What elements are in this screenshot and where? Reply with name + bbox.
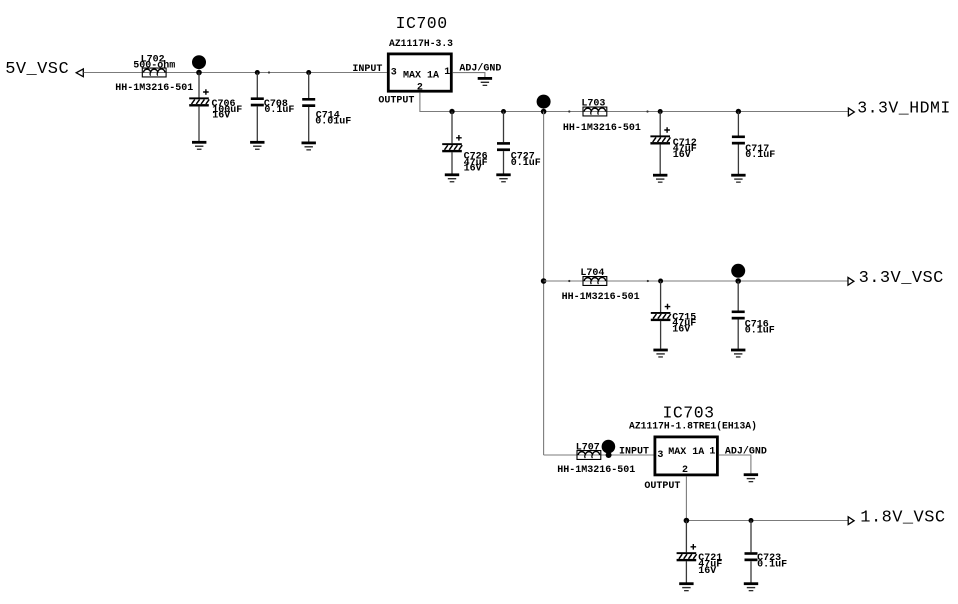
svg-text:16V: 16V [673,150,691,161]
wire trunk vertical [543,112,545,456]
svg-text:1: 1 [709,447,715,458]
svg-text:3: 3 [391,67,397,78]
arrow 1.8V_VSC (right) [848,517,854,525]
capacitor C726 [442,112,487,175]
capacitor C706 [189,73,242,142]
svg-text:0.1uF: 0.1uF [745,326,775,337]
solder dot after L707 [602,440,616,454]
svg-text:0.1uF: 0.1uF [511,158,541,169]
svg-text:AZ1117H-1.8TRE1(EH13A): AZ1117H-1.8TRE1(EH13A) [629,420,757,431]
capacitor C715 [651,281,696,349]
ground C727 [496,173,510,182]
svg-text:0.1uF: 0.1uF [745,150,775,161]
junction node C712 tap [658,109,663,114]
svg-text:INPUT: INPUT [352,64,382,75]
svg-text:16V: 16V [698,566,716,577]
wire nub row2a [568,110,570,112]
ground C706 [192,141,206,150]
ground C712 [653,174,667,183]
arrow 5V_VSC (left) [76,69,83,77]
svg-text:L703: L703 [581,98,605,109]
wire nub row2 [646,110,648,112]
junction node trunk row3 [541,278,547,284]
ground IC703 adj [744,473,758,482]
capacitor C721 [677,521,723,583]
inductor L707 [557,443,635,477]
svg-text:500-ohm: 500-ohm [133,60,175,72]
inductor L704 [562,268,640,303]
capacitor C714 [302,73,351,142]
svg-text:0.1uF: 0.1uF [264,105,294,116]
inductor L703 [563,98,641,134]
capacitor C717 [732,112,775,175]
svg-text:ADJ/GND: ADJ/GND [725,446,767,458]
junction node C727 tap [501,109,506,114]
junction node after L707 [606,452,612,458]
junction node C723 tap [749,518,754,523]
inductor L702 [115,55,193,94]
ground C726 [445,173,459,182]
svg-text:HH-1M3216-501: HH-1M3216-501 [115,83,193,94]
svg-text:IC700: IC700 [396,14,448,33]
junction node C715 tap [658,279,663,284]
op-amp regulator IC703 [629,403,757,476]
svg-text:5V_VSC: 5V_VSC [5,60,69,79]
capacitor C708 [251,73,295,142]
wire row4 input [544,454,654,456]
wire nub row3a [568,280,570,282]
junction node C716 tap [735,278,741,284]
solder dot at input junction [192,55,206,69]
op-amp regulator IC700 [388,14,453,94]
wire row3 rail [544,280,848,282]
wire IC703 output [686,476,848,520]
wire IC700 output [420,93,544,112]
wire ADJ/GND IC700 [453,73,485,78]
svg-text:AZ1117H-3.3: AZ1117H-3.3 [389,38,453,49]
junction node C708 tap [255,70,260,75]
svg-text:3.3V_HDMI: 3.3V_HDMI [857,98,951,117]
junction node C714 tap [306,70,311,75]
svg-text:0.1uF: 0.1uF [757,560,787,571]
svg-text:OUTPUT: OUTPUT [644,481,680,492]
svg-text:OUTPUT: OUTPUT [378,96,414,107]
svg-text:0.01uF: 0.01uF [315,117,351,128]
svg-text:HH-1M3216-501: HH-1M3216-501 [562,292,640,303]
svg-text:16V: 16V [672,325,690,336]
wire ADJ/GND IC703 [719,455,751,473]
svg-text:HH-1M3216-501: HH-1M3216-501 [563,123,641,134]
ground C721 [679,582,693,591]
capacitor C716 [732,281,775,349]
capacitor C712 [650,112,696,175]
wire nub [268,71,270,73]
ground C715 [653,349,667,358]
svg-text:16V: 16V [464,164,482,175]
solder dot at trunk top [537,95,551,109]
ground C708 [250,141,264,150]
svg-text:INPUT: INPUT [619,447,649,458]
svg-text:1: 1 [444,67,450,78]
ground IC700 adj [478,77,492,86]
svg-text:L707: L707 [576,443,600,454]
ground C723 [744,582,758,591]
capacitor C723 [745,521,788,583]
svg-text:16V: 16V [212,111,230,122]
junction node C721 tap [684,518,690,524]
svg-text:MAX 1A: MAX 1A [403,71,439,82]
svg-text:HH-1M3216-501: HH-1M3216-501 [557,465,635,476]
junction node C706 tap [196,70,202,76]
ground C716 [731,349,745,358]
svg-text:3.3V_VSC: 3.3V_VSC [859,269,944,288]
capacitor C727 [497,112,541,174]
ground C714 [302,142,316,151]
svg-text:2: 2 [417,83,423,94]
junction node C726 tap [449,109,454,114]
svg-text:MAX 1A: MAX 1A [668,447,704,458]
arrow 3.3V_HDMI (right) [848,108,854,116]
solder dot above C716 [731,264,745,278]
svg-text:3: 3 [657,450,663,461]
svg-text:L704: L704 [580,268,604,279]
net 5V_VSC label [5,60,69,79]
arrow 3.3V_VSC (right) [848,277,854,285]
junction node C717 tap [736,109,741,114]
svg-text:2: 2 [682,465,688,476]
svg-text:1.8V_VSC: 1.8V_VSC [860,509,945,528]
wire row1 main [84,72,387,74]
wire row2 rail [544,111,848,113]
junction node trunk top [541,109,547,115]
wire nub row3 [647,280,649,282]
ground C717 [731,174,745,183]
